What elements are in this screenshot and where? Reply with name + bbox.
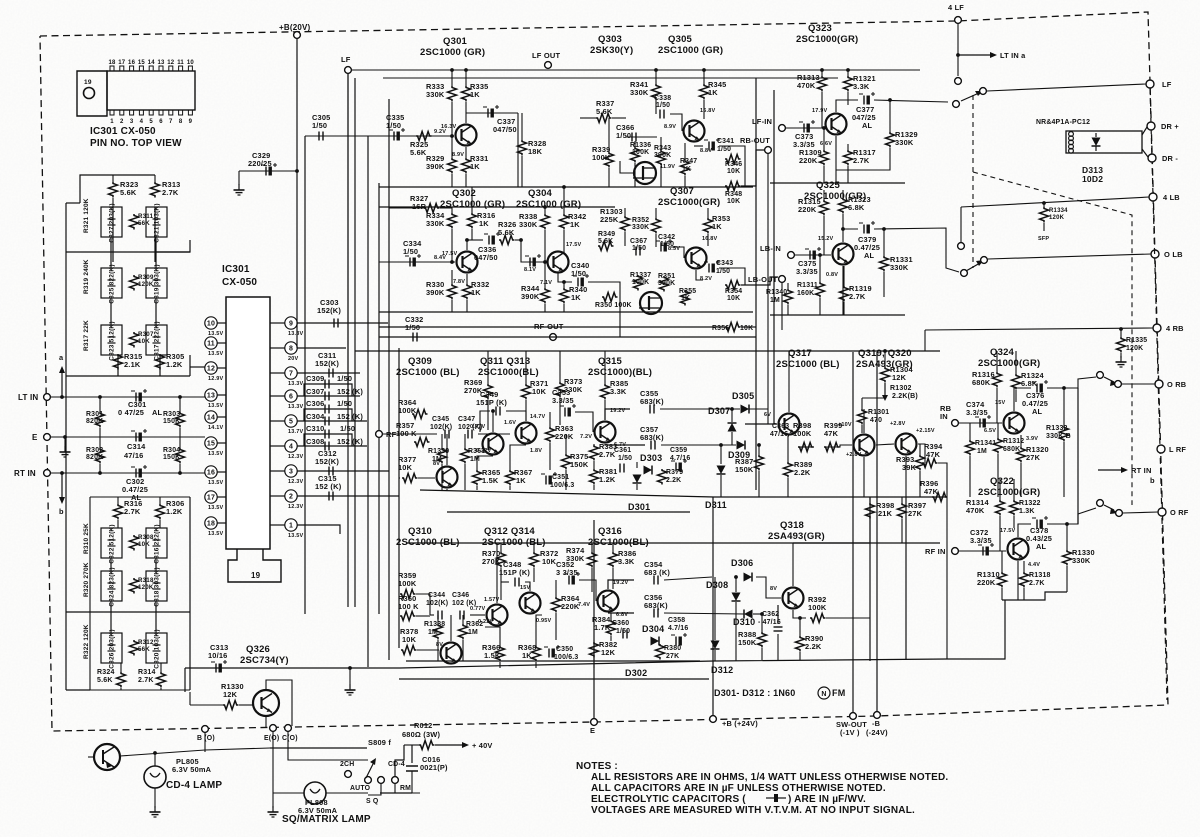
svg-text:S809 f: S809 f <box>368 738 391 747</box>
svg-text:18: 18 <box>207 521 215 528</box>
wire R333 to base <box>451 102 453 136</box>
label LF-IN <box>752 117 772 126</box>
wire R367 bottom <box>509 486 511 490</box>
diode D308 <box>732 593 741 602</box>
wire 4RB line <box>925 328 1153 330</box>
svg-text:683(K): 683(K) <box>640 433 664 442</box>
svg-text:150K: 150K <box>735 465 754 474</box>
switch contact LB2 <box>961 270 968 277</box>
wire R362 bottom <box>462 640 464 661</box>
svg-text:8.9V: 8.9V <box>664 124 676 130</box>
svg-text:R314: R314 <box>138 669 156 676</box>
svg-text:470K: 470K <box>797 81 816 90</box>
svg-text:(-1V ): (-1V ) <box>840 728 860 737</box>
label LB-IN <box>760 244 781 253</box>
transistor Q326 <box>253 690 279 716</box>
arrow +40V <box>435 741 493 750</box>
svg-text:) ARE IN µF/WV.: ) ARE IN µF/WV. <box>788 794 866 805</box>
capacitor C358 <box>668 617 688 646</box>
wire R367 top <box>510 445 526 470</box>
svg-text:47/16: 47/16 <box>124 451 144 460</box>
wire R363 bottom <box>549 443 551 470</box>
svg-text:150K: 150K <box>163 418 180 425</box>
terminal O RB <box>1155 380 1163 388</box>
resistor R364b <box>552 594 581 612</box>
IC301 pin 8 <box>285 342 299 362</box>
capacitor C372 <box>970 528 994 556</box>
wire C337 down <box>517 113 519 187</box>
resistor R1303 <box>600 207 630 232</box>
wire R359 out <box>416 594 430 615</box>
wire to SQ lamp <box>273 792 304 794</box>
wire C016 to lamp rail <box>380 792 412 794</box>
wire pin1 row <box>297 525 340 534</box>
label 7.4V <box>578 602 590 608</box>
svg-text:AL: AL <box>1032 407 1043 416</box>
svg-text:C325 822(K): C325 822(K) <box>109 264 116 303</box>
resistor R1310 <box>977 570 1007 587</box>
wire C355 to D305 <box>660 408 740 410</box>
transistor Q323 <box>812 108 847 147</box>
resistor R349 <box>598 231 615 251</box>
label 0.77V b <box>470 606 486 612</box>
svg-text:5.6K: 5.6K <box>97 677 113 684</box>
wire to R012 <box>404 744 419 746</box>
svg-text:R1311: R1311 <box>797 282 818 289</box>
svg-text:CD-4: CD-4 <box>388 761 405 768</box>
capacitor C316 boxed <box>146 524 167 563</box>
svg-text:C360: C360 <box>612 620 629 627</box>
resistor R327 <box>410 194 440 213</box>
svg-text:2.7K: 2.7K <box>1029 580 1045 587</box>
wire pin3 row <box>297 470 389 472</box>
svg-text:1.5K: 1.5K <box>484 651 501 660</box>
svg-text:12.3V: 12.3V <box>288 479 304 485</box>
wire R1318 bottom <box>1023 588 1025 600</box>
svg-text:8.1V: 8.1V <box>524 267 536 273</box>
resistor R1337 <box>630 272 651 291</box>
svg-text:7.2V: 7.2V <box>580 434 592 440</box>
resistor R367 <box>506 468 533 486</box>
wire R1321 top <box>847 70 849 76</box>
label Q318 <box>768 520 825 542</box>
wire from pin 6 <box>270 395 285 397</box>
resistor R1341 <box>966 440 997 456</box>
switch S-RB lever <box>1104 377 1118 386</box>
wire Q312 collector up <box>496 543 498 603</box>
resistor R1316 <box>972 370 1002 388</box>
terminal +B(20V) <box>294 32 301 39</box>
svg-text:1M: 1M <box>770 297 780 304</box>
label RF <box>386 430 397 439</box>
svg-text:RT IN: RT IN <box>1131 466 1152 475</box>
label RB-OUT <box>740 136 770 145</box>
svg-text:Q322: Q322 <box>990 476 1014 487</box>
resistor R1318 <box>1020 572 1051 587</box>
wire R1315 top <box>823 190 825 200</box>
junction <box>760 612 764 616</box>
resistor R371 <box>522 379 549 400</box>
junction Q302 collector <box>465 238 469 242</box>
svg-text:2SC1000(GR): 2SC1000(GR) <box>978 358 1040 369</box>
wire second ground rail <box>379 206 615 208</box>
capacitor C373 <box>793 120 815 149</box>
IC301 pin 9 <box>285 317 304 337</box>
wire Q302 collector up <box>466 241 468 250</box>
transistor Q310 <box>436 642 462 664</box>
svg-text:13.5V: 13.5V <box>208 331 224 337</box>
label SQ <box>366 798 379 805</box>
wire D313 bottom <box>1095 146 1097 151</box>
svg-text:R301: R301 <box>86 411 103 418</box>
label SW-OUT <box>836 720 867 737</box>
svg-text:330K: 330K <box>890 263 909 272</box>
wire rail vertical x594 <box>593 520 595 718</box>
wire Q310 collector up <box>450 615 452 641</box>
ground R1335 <box>1116 356 1127 367</box>
svg-text:3: 3 <box>289 469 293 476</box>
terminal RB-OUT <box>765 147 772 154</box>
capacitor C341 <box>704 138 734 153</box>
terminal RB IN <box>952 420 959 427</box>
wire from pin 7 <box>270 372 285 374</box>
wire D306 to Q318 base <box>756 577 781 598</box>
svg-text:L RF: L RF <box>1169 445 1186 454</box>
wire to R1330 <box>190 704 223 706</box>
notes text block <box>576 761 948 816</box>
capacitor C329 <box>248 151 277 176</box>
svg-text:16.8V: 16.8V <box>702 236 718 242</box>
wire R1329 bottom <box>836 148 890 170</box>
svg-text:+B (+24V): +B (+24V) <box>722 719 758 728</box>
capacitor C353 <box>552 388 576 417</box>
label SQ/MATRIX LAMP <box>282 814 371 825</box>
wire Q322 collector <box>1018 524 1031 537</box>
wire R399 to Q319 base <box>824 445 852 447</box>
wire module to DR+ <box>1142 127 1147 135</box>
wire R328 bottom <box>521 156 523 187</box>
svg-text:R1301: R1301 <box>868 409 889 416</box>
svg-text:8V: 8V <box>433 461 440 467</box>
wire R385 bottom <box>604 400 606 420</box>
IC301 pin 10 <box>205 317 224 337</box>
svg-text:12K: 12K <box>601 648 616 657</box>
svg-text:O RB: O RB <box>1167 380 1186 389</box>
capacitor C314 <box>124 429 147 460</box>
svg-text:13.5V: 13.5V <box>208 403 224 409</box>
wire C379 to LB switch <box>874 228 959 272</box>
svg-text:10K: 10K <box>398 463 413 472</box>
svg-text:D301: D301 <box>628 502 650 512</box>
wire rail vertical x906 <box>905 497 907 659</box>
junction <box>757 443 761 447</box>
wire Q318 feed rail <box>793 542 870 544</box>
resistor R368 <box>518 643 541 661</box>
svg-text:1/50: 1/50 <box>337 374 352 383</box>
svg-text:+2.15V: +2.15V <box>916 428 935 434</box>
svg-text:R1322: R1322 <box>1019 500 1041 507</box>
wire R1332 bottom <box>1063 442 1065 497</box>
junction <box>734 575 738 579</box>
svg-text:R1318: R1318 <box>1029 572 1051 579</box>
resistor R1311 <box>797 282 825 298</box>
resistor R326 <box>498 220 516 245</box>
svg-text:C342: C342 <box>658 234 675 241</box>
wire module to DR- <box>1142 149 1148 157</box>
svg-text:LB-IN: LB-IN <box>760 244 781 253</box>
wire R1332 top <box>1063 388 1065 426</box>
svg-text:5.6K: 5.6K <box>120 188 137 197</box>
capacitor C359 <box>670 447 690 472</box>
capacitor C354 <box>644 560 670 585</box>
label Q322 <box>978 476 1040 498</box>
resistor R353 <box>704 214 731 234</box>
wire R381 bottom <box>593 485 595 490</box>
svg-text:4 RB: 4 RB <box>1166 324 1184 333</box>
capacitor C332 <box>405 315 423 342</box>
wire R390 bottom <box>799 652 801 660</box>
resistor R307 <box>130 331 154 348</box>
label R317 22K rotated <box>83 320 90 351</box>
svg-text:C316 222(K): C316 222(K) <box>154 524 161 563</box>
wire R1303 bottom <box>624 232 626 246</box>
svg-text:CD-4 LAMP: CD-4 LAMP <box>166 780 222 791</box>
capacitor C334 <box>403 239 422 267</box>
svg-text:100K: 100K <box>632 279 649 286</box>
wire R356 rail <box>379 326 725 328</box>
svg-text:3.3K: 3.3K <box>853 82 870 91</box>
junction <box>730 407 734 411</box>
label D313 <box>1082 165 1103 184</box>
svg-text:O LB: O LB <box>1164 250 1183 259</box>
svg-text:1K: 1K <box>681 295 690 302</box>
svg-text:2: 2 <box>120 119 124 125</box>
svg-text:B (O): B (O) <box>197 735 215 742</box>
svg-text:15.2V: 15.2V <box>818 236 834 242</box>
switch S809 contact CD4 <box>392 777 399 784</box>
capacitor C307 <box>306 387 363 401</box>
resistor R394 <box>922 442 943 468</box>
label R310 25K rotated <box>83 523 90 554</box>
terminal +B(+24V) <box>710 716 717 723</box>
junction LT IN <box>60 395 64 399</box>
resistor R338 <box>519 212 550 230</box>
svg-text:56K: 56K <box>138 646 150 653</box>
resistor R385 <box>601 379 629 400</box>
svg-text:R304: R304 <box>163 447 180 454</box>
svg-text:150K: 150K <box>738 638 757 647</box>
svg-text:39K: 39K <box>902 463 917 472</box>
svg-text:17: 17 <box>207 495 215 502</box>
switch contact 4LF <box>955 78 962 85</box>
wire bus line 8 <box>398 348 400 648</box>
svg-text:R303: R303 <box>163 411 180 418</box>
svg-text:1.5K: 1.5K <box>482 476 499 485</box>
capacitor C362 <box>758 611 783 631</box>
svg-text:1M: 1M <box>468 629 478 636</box>
svg-text:1.7K: 1.7K <box>594 623 611 632</box>
wire to O RF <box>1123 512 1158 513</box>
label D305 <box>732 391 754 401</box>
dashed switch linkage 1 <box>972 95 974 268</box>
wire R388 bottom <box>761 648 763 660</box>
wire R1322 bottom <box>1013 516 1015 528</box>
svg-text:R1334: R1334 <box>1049 208 1068 214</box>
capacitor C337 <box>483 105 517 134</box>
svg-text:13.5V: 13.5V <box>288 533 304 539</box>
label 8.1V <box>524 267 536 273</box>
capacitor C318 boxed <box>146 567 167 606</box>
label R320 270K rotated <box>83 562 90 597</box>
label O LB <box>1164 250 1183 259</box>
wire from pin 4 <box>270 445 285 447</box>
svg-text:R1339: R1339 <box>428 448 449 455</box>
junction <box>543 260 547 264</box>
svg-text:R317 22K: R317 22K <box>83 320 90 351</box>
svg-text:C324 823(K): C324 823(K) <box>109 567 116 606</box>
wire C016 branch <box>411 745 413 763</box>
label +B(+24V) <box>722 719 758 728</box>
wire R1314 top <box>999 479 1001 500</box>
wire R1338 bottom <box>437 640 439 661</box>
svg-text:2: 2 <box>289 494 293 501</box>
wire R378 to Q310 <box>417 649 439 651</box>
wire Q302 base row <box>379 261 455 263</box>
capacitor C322 boxed <box>101 524 122 563</box>
wire R344 top <box>544 262 546 288</box>
svg-text:2.1K: 2.1K <box>124 360 141 369</box>
label D309 <box>728 450 750 460</box>
svg-text:17.5V: 17.5V <box>566 242 582 248</box>
capacitor C317 boxed <box>146 321 167 360</box>
svg-text:1.2K: 1.2K <box>166 360 183 369</box>
wire -B vertical <box>876 352 878 712</box>
label CD-4 <box>388 761 405 768</box>
wire R313 top <box>154 175 156 182</box>
svg-text:1/50: 1/50 <box>571 269 586 278</box>
wire R1330b bottom <box>1066 566 1068 592</box>
label D306 <box>731 558 753 568</box>
wire R329 bottom <box>451 174 453 187</box>
transistor Q312 <box>478 597 508 626</box>
wire R370 bottom <box>500 568 502 600</box>
svg-text:19: 19 <box>84 79 92 86</box>
wire bus line 6 <box>378 183 380 614</box>
diode D301a <box>633 475 642 484</box>
wire Q317 collector up <box>788 351 790 412</box>
wire R372 bottom <box>533 568 535 582</box>
label Q319 Q320 <box>856 348 913 370</box>
svg-text:15V: 15V <box>995 400 1006 406</box>
svg-text:R354: R354 <box>725 288 742 295</box>
wire pin8 row <box>297 347 346 349</box>
junction <box>1065 522 1069 526</box>
IC301 pin 3 <box>285 465 304 485</box>
svg-text:683 (K): 683 (K) <box>644 568 670 577</box>
wire rail vertical x870 <box>869 497 871 661</box>
svg-text:2CH: 2CH <box>340 761 354 768</box>
wire R397 bottom <box>901 519 903 543</box>
terminal LF-IN <box>779 125 786 132</box>
wire R371 bottom <box>525 400 527 411</box>
resistor R328 <box>518 139 547 156</box>
wire Q304 emitter row <box>558 273 572 282</box>
resistor R316 <box>114 499 143 519</box>
svg-text:C343: C343 <box>716 260 733 267</box>
wire Q315 collector row <box>605 409 630 420</box>
svg-text:2.2K(B): 2.2K(B) <box>892 393 918 400</box>
svg-text:1/50: 1/50 <box>405 323 420 332</box>
wire R383 top <box>593 444 595 445</box>
wire to O LB terminal <box>988 254 1151 259</box>
resistor R309 <box>130 274 154 291</box>
switch contact RB <box>1097 372 1104 379</box>
label R012 <box>402 721 440 739</box>
wire D311 top <box>720 445 722 464</box>
wire Q309 emitter <box>446 489 448 490</box>
wire R1317 top <box>847 144 849 150</box>
svg-text:7.1V: 7.1V <box>540 280 552 286</box>
svg-text:D304: D304 <box>642 624 664 634</box>
arrow LT IN a <box>958 51 1026 60</box>
svg-text:2.2K: 2.2K <box>666 477 681 484</box>
svg-text:C(O): C(O) <box>282 735 298 742</box>
svg-text:R352: R352 <box>632 217 649 224</box>
svg-text:5: 5 <box>149 119 153 125</box>
wire R373 bottom <box>559 398 561 425</box>
svg-text:16.8V: 16.8V <box>700 108 716 114</box>
switch contact LF <box>953 101 960 108</box>
junction R1304 <box>883 349 887 353</box>
svg-text:6.3V 50mA: 6.3V 50mA <box>172 765 212 774</box>
svg-text:E: E <box>32 433 38 442</box>
junction <box>820 68 824 72</box>
label C(O) <box>282 735 298 742</box>
label O RB <box>1167 380 1186 389</box>
package bottom pins 1-9 <box>110 110 193 125</box>
resistor R1334 <box>1040 207 1069 223</box>
capacitor C313 <box>208 643 228 673</box>
terminal RT IN <box>44 470 51 477</box>
svg-text:R349: R349 <box>598 231 615 238</box>
svg-text:LF: LF <box>341 55 351 64</box>
terminal E <box>44 434 51 441</box>
resistor R1309 <box>799 148 829 166</box>
capacitor loop C306/C304 <box>304 409 352 421</box>
wire R365 bottom <box>476 486 478 490</box>
resistor R1314 <box>966 498 1005 515</box>
junction <box>562 185 566 189</box>
resistor R390 <box>796 634 824 651</box>
wire D301a bottom <box>636 484 638 490</box>
label D303 <box>640 453 662 463</box>
wire R314 bottom <box>160 688 162 690</box>
svg-text:13.3V: 13.3V <box>288 381 304 387</box>
svg-text:R322 120K: R322 120K <box>83 624 90 659</box>
wire R304 bottom <box>179 464 181 473</box>
svg-text:9: 9 <box>189 119 193 125</box>
svg-text:18K: 18K <box>528 147 543 156</box>
resistor R369 <box>464 378 493 400</box>
node B(O) <box>202 726 209 733</box>
wire C(O) to S809 <box>288 732 368 760</box>
svg-text:3 3/35: 3 3/35 <box>556 568 578 577</box>
wire bus line 7 <box>388 99 390 660</box>
wire C376 to RB switch <box>1047 377 1096 388</box>
wire R368 bottom <box>535 662 537 668</box>
svg-text:AUTO: AUTO <box>350 785 371 792</box>
capacitor C312 <box>315 449 339 476</box>
